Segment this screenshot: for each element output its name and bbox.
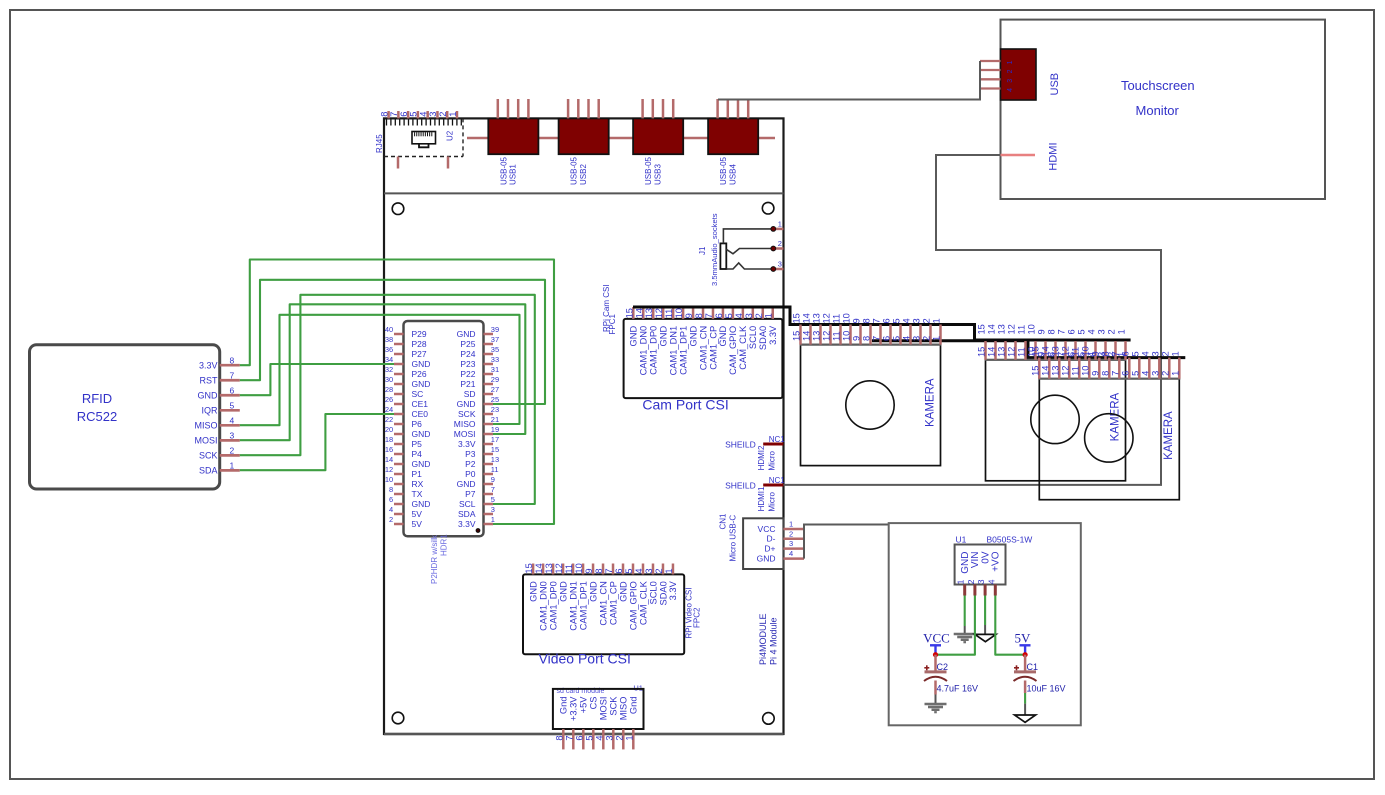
GPIO header HDR1 P2HDR box — [404, 321, 484, 536]
svg-text:2: 2 — [922, 336, 932, 341]
monitor USB connector — [1001, 49, 1037, 100]
svg-text:CAM1_CN: CAM1_CN — [698, 326, 708, 370]
svg-text:P26: P26 — [412, 369, 427, 379]
svg-text:Gnd: Gnd — [559, 697, 569, 715]
svg-text:8: 8 — [230, 355, 235, 365]
USB-05 USB4 connector — [708, 118, 758, 154]
svg-text:U1: U1 — [956, 535, 967, 545]
svg-text:RX: RX — [412, 479, 424, 489]
svg-text:39: 39 — [491, 325, 499, 334]
svg-text:3: 3 — [644, 568, 654, 573]
svg-text:+5V: +5V — [579, 696, 589, 714]
svg-text:10uF 16V: 10uF 16V — [1027, 684, 1066, 694]
svg-text:+3.3V: +3.3V — [569, 696, 579, 721]
RJ45 pin comb on board edge — [386, 120, 388, 126]
wire SCK RFID pin2 to HDR1 pin5 — [240, 295, 535, 504]
svg-text:33: 33 — [491, 355, 499, 364]
mounting hole bottom-left — [392, 712, 404, 724]
camera ribbon bus from Cam CSI to KAMERA2 — [633, 307, 1131, 340]
svg-text:3: 3 — [912, 336, 922, 341]
svg-text:GND: GND — [457, 479, 476, 489]
HDR1 pin1 dot — [476, 529, 480, 533]
svg-text:14: 14 — [987, 347, 997, 357]
svg-text:15: 15 — [524, 563, 534, 573]
svg-text:CAM1_DP0: CAM1_DP0 — [649, 326, 659, 375]
svg-text:6: 6 — [882, 336, 892, 341]
svg-text:13: 13 — [1050, 366, 1060, 376]
svg-text:7: 7 — [1110, 351, 1120, 356]
svg-text:SDA: SDA — [199, 466, 218, 476]
svg-text:P6: P6 — [412, 419, 423, 429]
svg-text:GND: GND — [718, 326, 728, 347]
svg-text:3: 3 — [1007, 79, 1014, 83]
svg-text:USB-05: USB-05 — [570, 156, 579, 185]
svg-text:3: 3 — [1150, 371, 1160, 376]
svg-text:2: 2 — [230, 446, 235, 456]
svg-text:HDMI1: HDMI1 — [757, 486, 766, 511]
svg-text:CAM1_DN0: CAM1_DN0 — [538, 581, 548, 631]
svg-text:5: 5 — [1130, 371, 1140, 376]
svg-text:3: 3 — [912, 318, 922, 323]
svg-text:21: 21 — [491, 415, 499, 424]
svg-text:13: 13 — [644, 308, 654, 318]
Touchscreen Monitor — [1001, 20, 1326, 199]
ground symbol U1 0V — [975, 634, 996, 641]
svg-text:GND: GND — [528, 581, 538, 602]
svg-text:10: 10 — [1027, 324, 1037, 334]
svg-text:GND: GND — [457, 329, 476, 339]
svg-text:2: 2 — [778, 239, 782, 248]
svg-text:P22: P22 — [460, 369, 475, 379]
svg-text:13: 13 — [997, 347, 1007, 357]
audio jack J1 3.5mmAudio_sockets — [720, 243, 726, 269]
svg-text:9: 9 — [852, 336, 862, 341]
svg-text:GND: GND — [412, 429, 431, 439]
svg-text:CAM1_DP0: CAM1_DP0 — [548, 581, 558, 630]
svg-text:GND: GND — [658, 326, 668, 347]
svg-text:13: 13 — [812, 331, 822, 341]
capacitor C2 4.7uF 16V — [934, 655, 937, 671]
svg-text:KAMERA: KAMERA — [1163, 411, 1175, 460]
svg-text:12: 12 — [822, 331, 832, 341]
svg-text:SHEILD: SHEILD — [725, 439, 756, 449]
svg-text:2: 2 — [1160, 371, 1170, 376]
svg-text:8: 8 — [379, 112, 389, 117]
capacitor C1 10uF 16V — [1024, 655, 1027, 671]
wire SDA RFID pin1 to HDR1 pin24 — [240, 414, 394, 470]
Cam Port CSI connector FPC1 — [624, 319, 783, 398]
svg-text:10: 10 — [1080, 366, 1090, 376]
svg-text:28: 28 — [385, 385, 393, 394]
svg-text:+VO: +VO — [991, 551, 1002, 572]
svg-text:9: 9 — [584, 568, 594, 573]
Micro USB-C CN1 — [743, 518, 783, 569]
svg-text:3: 3 — [428, 112, 438, 117]
svg-text:VCC: VCC — [758, 524, 776, 534]
svg-text:SCL0: SCL0 — [648, 581, 658, 604]
svg-text:CS: CS — [589, 697, 599, 710]
svg-text:11: 11 — [1070, 347, 1080, 357]
USB-05 USB3 connector — [633, 118, 683, 154]
svg-text:NC1: NC1 — [769, 476, 786, 485]
wire RST RFID pin7 to HDR1 pin25 — [240, 280, 545, 404]
svg-text:CE0: CE0 — [412, 409, 429, 419]
svg-text:15: 15 — [491, 445, 499, 454]
svg-text:MOSI: MOSI — [599, 697, 609, 721]
svg-text:GND: GND — [588, 581, 598, 602]
svg-text:20: 20 — [385, 425, 393, 434]
svg-text:2: 2 — [789, 529, 793, 538]
svg-text:11: 11 — [1070, 366, 1080, 376]
svg-text:6: 6 — [882, 318, 892, 323]
svg-text:GND: GND — [412, 499, 431, 509]
svg-text:11: 11 — [1017, 325, 1027, 335]
svg-text:9: 9 — [491, 475, 495, 484]
svg-text:8: 8 — [594, 568, 604, 573]
svg-text:10: 10 — [842, 331, 852, 341]
svg-text:MISO: MISO — [194, 421, 217, 431]
svg-text:CAM1_DN1: CAM1_DN1 — [568, 581, 578, 631]
svg-text:27: 27 — [491, 385, 499, 394]
svg-text:KAMERA: KAMERA — [925, 378, 937, 427]
svg-text:4.7uF 16V: 4.7uF 16V — [937, 684, 979, 694]
svg-text:7: 7 — [872, 318, 882, 323]
svg-text:USB3: USB3 — [654, 164, 663, 185]
svg-text:FPC1: FPC1 — [608, 314, 617, 335]
svg-text:U1: U1 — [633, 683, 643, 692]
svg-text:8: 8 — [389, 485, 393, 494]
svg-text:11: 11 — [832, 314, 842, 324]
svg-text:7: 7 — [230, 370, 235, 380]
svg-text:5: 5 — [892, 336, 902, 341]
svg-text:13: 13 — [491, 455, 499, 464]
svg-text:P5: P5 — [412, 439, 423, 449]
svg-text:4: 4 — [986, 579, 996, 584]
DC-DC converter U1 B0505S-1W — [955, 545, 1006, 585]
svg-text:10: 10 — [842, 313, 852, 323]
svg-text:D-: D- — [767, 534, 776, 544]
wire 3.3V RFID pin8 to HDR1 pin1 — [240, 260, 554, 525]
svg-text:6: 6 — [389, 495, 393, 504]
svg-text:15: 15 — [1030, 346, 1040, 356]
RFID RC522 module — [30, 345, 220, 489]
svg-text:CAM1_CP: CAM1_CP — [708, 326, 718, 370]
svg-text:P29: P29 — [412, 329, 427, 339]
KAMERA 2 connector — [986, 360, 1126, 481]
wire MOSI RFID pin3 to HDR1 pin19 — [240, 304, 526, 440]
svg-text:USB2: USB2 — [579, 164, 588, 185]
svg-text:1: 1 — [491, 515, 495, 524]
svg-text:Pi 4 Module: Pi 4 Module — [769, 617, 779, 665]
svg-text:USB4: USB4 — [729, 164, 738, 185]
svg-text:1: 1 — [956, 579, 966, 584]
svg-text:CAM1_DP1: CAM1_DP1 — [678, 326, 688, 375]
svg-text:P2HDR w/silk: P2HDR w/silk — [430, 534, 439, 584]
svg-text:3: 3 — [976, 579, 986, 584]
svg-text:3: 3 — [744, 313, 754, 318]
svg-text:1: 1 — [230, 461, 235, 471]
svg-text:4: 4 — [734, 313, 744, 318]
svg-text:1: 1 — [448, 112, 458, 117]
svg-text:SDA0: SDA0 — [758, 326, 768, 350]
monitor HDMI pin — [1001, 154, 1036, 157]
wire U1 +VO to 5V — [995, 596, 1025, 655]
svg-text:1: 1 — [778, 219, 782, 228]
svg-text:GND: GND — [412, 379, 431, 389]
svg-text:3: 3 — [778, 259, 782, 268]
svg-text:P4: P4 — [412, 449, 423, 459]
svg-text:16: 16 — [385, 445, 393, 454]
Pi 4 module board outline — [384, 118, 784, 734]
svg-text:SD: SD — [464, 389, 476, 399]
svg-text:P27: P27 — [412, 349, 427, 359]
svg-text:11: 11 — [491, 465, 499, 474]
svg-text:14: 14 — [987, 324, 997, 334]
svg-text:GND: GND — [558, 581, 568, 602]
svg-text:15: 15 — [624, 308, 634, 318]
svg-text:5V: 5V — [412, 519, 423, 529]
svg-text:3.3V: 3.3V — [458, 439, 476, 449]
RJ45 lower pins — [397, 157, 400, 169]
svg-text:2: 2 — [966, 579, 976, 584]
usb bus line — [467, 137, 775, 140]
svg-text:17: 17 — [491, 435, 499, 444]
svg-text:C2: C2 — [937, 662, 949, 672]
svg-text:MISO: MISO — [454, 419, 476, 429]
svg-text:Pi4MODULE: Pi4MODULE — [758, 613, 768, 665]
svg-text:14: 14 — [802, 313, 812, 323]
svg-text:SCL: SCL — [459, 499, 476, 509]
svg-text:HDMI2: HDMI2 — [757, 445, 766, 470]
svg-text:4: 4 — [418, 112, 428, 117]
svg-text:4: 4 — [902, 318, 912, 323]
svg-text:4: 4 — [1007, 88, 1014, 92]
svg-text:CAM1_DN1: CAM1_DN1 — [668, 326, 678, 376]
svg-text:P25: P25 — [460, 339, 475, 349]
svg-text:SCK: SCK — [609, 696, 619, 716]
svg-text:40: 40 — [385, 325, 393, 334]
svg-text:SCK: SCK — [458, 409, 476, 419]
svg-text:GND: GND — [629, 326, 639, 347]
ground symbol U1 GND — [954, 633, 976, 636]
svg-text:SHEILD: SHEILD — [725, 480, 756, 490]
camera ribbon bus to KAMERA3 — [872, 341, 1185, 358]
svg-text:MOSI: MOSI — [194, 436, 217, 446]
svg-text:15: 15 — [792, 331, 802, 341]
svg-text:CAM1_DP1: CAM1_DP1 — [578, 581, 588, 630]
svg-text:HDMI: HDMI — [1047, 142, 1059, 170]
svg-text:8: 8 — [694, 313, 704, 318]
HDMI2 Micro SHEILD pin — [763, 443, 783, 446]
svg-text:2: 2 — [922, 318, 932, 323]
svg-text:5V: 5V — [412, 509, 423, 519]
svg-text:11: 11 — [832, 331, 842, 341]
svg-text:12: 12 — [1007, 347, 1017, 357]
svg-text:8: 8 — [1100, 371, 1110, 376]
svg-text:P2: P2 — [465, 459, 476, 469]
mounting hole top-left — [392, 203, 404, 215]
svg-text:7: 7 — [872, 336, 882, 341]
svg-text:SCK: SCK — [199, 451, 218, 461]
svg-text:Micro: Micro — [767, 491, 776, 511]
svg-text:CAM_CLK: CAM_CLK — [738, 325, 748, 370]
svg-text:15: 15 — [792, 313, 802, 323]
svg-text:3: 3 — [491, 505, 495, 514]
svg-text:Cam Port CSI: Cam Port CSI — [642, 397, 728, 413]
wire U1 VIN to VCC — [936, 596, 975, 655]
svg-text:1: 1 — [1117, 329, 1127, 334]
HDR1 pins and labels — [394, 333, 404, 336]
svg-text:6: 6 — [1120, 351, 1130, 356]
svg-text:9: 9 — [1037, 329, 1047, 334]
svg-text:4: 4 — [1140, 371, 1150, 376]
svg-text:29: 29 — [491, 375, 499, 384]
svg-text:31: 31 — [491, 365, 499, 374]
svg-text:2: 2 — [654, 568, 664, 573]
svg-text:5: 5 — [624, 568, 634, 573]
USB-05 USB1 connector — [488, 118, 538, 154]
svg-text:Micro: Micro — [767, 450, 776, 470]
svg-text:22: 22 — [385, 415, 393, 424]
svg-text:GND: GND — [412, 459, 431, 469]
wire monitor HDMI to HDMI1 — [783, 155, 1161, 485]
svg-text:6: 6 — [1120, 371, 1130, 376]
svg-text:RC522: RC522 — [77, 409, 117, 424]
wire GND RFID pin6 to HDR1 pin34 — [240, 364, 394, 395]
svg-text:3: 3 — [1150, 351, 1160, 356]
svg-text:U2: U2 — [445, 130, 454, 141]
svg-text:10: 10 — [574, 563, 584, 573]
svg-text:4: 4 — [594, 735, 604, 740]
svg-text:FPC2: FPC2 — [693, 607, 702, 628]
RJ45 connector U2 dashed outline — [462, 118, 464, 156]
svg-text:MOSI: MOSI — [454, 429, 476, 439]
svg-text:34: 34 — [385, 355, 393, 364]
svg-text:CAM1_CN: CAM1_CN — [598, 581, 608, 625]
svg-text:12: 12 — [1060, 346, 1070, 356]
svg-text:18: 18 — [385, 435, 393, 444]
svg-text:14: 14 — [1040, 346, 1050, 356]
svg-text:10: 10 — [674, 308, 684, 318]
svg-text:7: 7 — [704, 313, 714, 318]
svg-text:12: 12 — [385, 465, 393, 474]
wire U1 0V to ground — [984, 596, 986, 626]
svg-text:13: 13 — [1050, 346, 1060, 356]
svg-text:CE1: CE1 — [412, 399, 429, 409]
svg-text:14: 14 — [1040, 366, 1050, 376]
mounting hole top-right — [762, 202, 774, 214]
svg-text:26: 26 — [385, 395, 393, 404]
svg-text:6: 6 — [574, 735, 584, 740]
svg-text:3: 3 — [230, 431, 235, 441]
svg-text:7: 7 — [564, 735, 574, 740]
wire usb4 to monitor USB — [718, 61, 980, 100]
svg-text:1: 1 — [1170, 351, 1180, 356]
svg-text:TX: TX — [412, 489, 423, 499]
svg-text:USB-05: USB-05 — [499, 156, 508, 185]
svg-text:1: 1 — [789, 520, 793, 529]
svg-text:10: 10 — [1080, 346, 1090, 356]
svg-text:6: 6 — [399, 112, 409, 117]
svg-text:3: 3 — [789, 539, 793, 548]
svg-text:NC1: NC1 — [769, 435, 786, 444]
svg-text:CAM1_CP: CAM1_CP — [608, 581, 618, 625]
svg-text:USB: USB — [1049, 73, 1061, 96]
svg-text:GND: GND — [412, 359, 431, 369]
svg-text:CAM1_DN0: CAM1_DN0 — [639, 326, 649, 376]
svg-text:MISO: MISO — [619, 697, 629, 721]
wire MISO RFID pin4 to HDR1 pin21 — [240, 315, 520, 425]
ground symbol C1 — [1015, 715, 1036, 722]
svg-text:P0: P0 — [465, 469, 476, 479]
svg-text:12: 12 — [1007, 324, 1017, 334]
svg-text:2: 2 — [1107, 329, 1117, 334]
svg-text:USB1: USB1 — [509, 164, 518, 185]
svg-text:11: 11 — [564, 564, 574, 574]
svg-text:8: 8 — [1100, 351, 1110, 356]
svg-text:GND: GND — [457, 399, 476, 409]
svg-text:P3: P3 — [465, 449, 476, 459]
svg-text:GND: GND — [198, 391, 219, 401]
svg-text:13: 13 — [812, 313, 822, 323]
svg-text:CAM_GPIO: CAM_GPIO — [628, 581, 638, 630]
svg-text:2: 2 — [389, 515, 393, 524]
svg-text:GND: GND — [757, 553, 776, 563]
USB-05 USB2 connector — [559, 118, 609, 154]
KAMERA 1 connector — [801, 345, 941, 466]
svg-text:HDR1: HDR1 — [440, 534, 449, 556]
svg-text:9: 9 — [852, 318, 862, 323]
svg-text:USB-05: USB-05 — [644, 156, 653, 185]
svg-text:4: 4 — [230, 416, 235, 426]
svg-text:3.5mmAudio_sockets: 3.5mmAudio_sockets — [710, 213, 719, 286]
svg-text:4: 4 — [902, 336, 912, 341]
svg-text:12: 12 — [1060, 366, 1070, 376]
svg-text:19: 19 — [491, 425, 499, 434]
svg-text:2: 2 — [614, 735, 624, 740]
svg-text:8: 8 — [1047, 329, 1057, 334]
svg-text:1: 1 — [764, 313, 774, 318]
svg-text:P7: P7 — [465, 489, 476, 499]
svg-text:30: 30 — [385, 375, 393, 384]
svg-text:P23: P23 — [460, 359, 475, 369]
svg-text:6: 6 — [1067, 329, 1077, 334]
KAMERA 3 connector — [1039, 379, 1179, 500]
svg-text:36: 36 — [385, 345, 393, 354]
svg-text:1: 1 — [1170, 371, 1180, 376]
svg-text:13: 13 — [544, 563, 554, 573]
svg-text:6: 6 — [614, 568, 624, 573]
svg-text:SDA0: SDA0 — [658, 581, 668, 605]
Video Port CSI connector FPC2 — [523, 574, 684, 654]
svg-text:3.3V: 3.3V — [668, 580, 678, 600]
svg-text:1: 1 — [932, 318, 942, 323]
svg-text:5: 5 — [892, 318, 902, 323]
svg-text:3.3V: 3.3V — [458, 519, 476, 529]
svg-text:32: 32 — [385, 365, 393, 374]
svg-text:25: 25 — [491, 395, 499, 404]
svg-text:2: 2 — [1007, 69, 1014, 73]
svg-text:7: 7 — [389, 112, 399, 117]
svg-text:RFID: RFID — [82, 391, 112, 406]
svg-text:CN1: CN1 — [719, 513, 728, 530]
svg-text:12: 12 — [554, 563, 564, 573]
svg-text:3: 3 — [604, 735, 614, 740]
svg-text:2: 2 — [1160, 351, 1170, 356]
svg-text:P28: P28 — [412, 339, 427, 349]
svg-text:11: 11 — [1017, 347, 1027, 357]
svg-text:11: 11 — [664, 309, 674, 319]
